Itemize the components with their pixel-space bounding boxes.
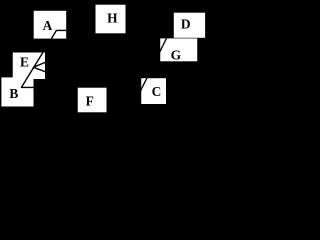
- svg-text:G: G: [171, 47, 182, 62]
- svg-text:E: E: [20, 54, 29, 69]
- svg-text:B: B: [9, 86, 18, 101]
- svg-text:A: A: [43, 18, 53, 33]
- svg-text:D: D: [181, 17, 191, 32]
- svg-text:H: H: [107, 10, 118, 25]
- svg-text:C: C: [152, 84, 162, 99]
- svg-text:F: F: [86, 93, 94, 108]
